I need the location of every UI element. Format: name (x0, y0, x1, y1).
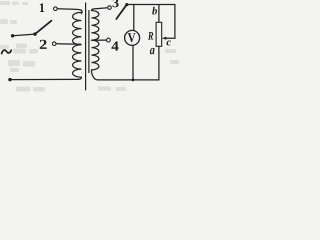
node contact 1 circle (54, 7, 58, 11)
node contact 4 circle (107, 38, 111, 42)
wire rheostat b lead (158, 5, 160, 23)
node switch S2 pivot dot (125, 3, 128, 6)
label tap 4 (111, 41, 118, 50)
wire secondary mid tap to contact 4 (92, 39, 107, 41)
label c (167, 40, 171, 45)
node junction voltmeter-bottom rail dot (132, 79, 135, 82)
wire secondary bottom to bottom rail (92, 70, 159, 80)
node contact 2 circle (52, 42, 56, 46)
transformer core line left (85, 3, 87, 90)
label a (150, 48, 155, 54)
node contact 3 circle (108, 6, 112, 10)
node switch S1 pivot dot (33, 32, 36, 35)
wire primary bottom to source bottom (10, 77, 81, 79)
label b (152, 7, 157, 15)
wire voltmeter top lead (133, 5, 135, 31)
label tap 1 (40, 3, 44, 12)
transformer core line right (88, 11, 90, 73)
wire secondary top to contact 3 (92, 8, 108, 11)
bleed-through ghost text (faint) (0, 1, 179, 92)
paper background (0, 0, 180, 93)
wire source-top to switch pivot (13, 34, 35, 36)
voltmeter V body circle (125, 30, 140, 45)
label R (148, 32, 153, 40)
wire right side down to wiper (165, 5, 175, 39)
wire rheostat a lead (158, 46, 160, 80)
inductor primary winding L1 (73, 12, 82, 77)
inductor secondary winding L2 (92, 11, 99, 70)
wire top rail (127, 4, 175, 6)
wiper arrowhead c (162, 37, 166, 40)
wire contact1 to primary top (57, 9, 82, 14)
node source top terminal dot (11, 34, 14, 37)
wire contact2 to primary mid tap (56, 43, 81, 46)
switch S1 blade (35, 21, 51, 34)
ac source symbol ~ (2, 50, 12, 53)
label tap 3 (113, 0, 119, 7)
node source bottom terminal dot (8, 78, 11, 81)
label V meter (128, 33, 136, 42)
wire voltmeter bottom lead (132, 45, 134, 80)
label tap 2 (40, 40, 47, 49)
resistor R rheostat body (156, 22, 162, 46)
switch S2 blade (116, 5, 126, 19)
